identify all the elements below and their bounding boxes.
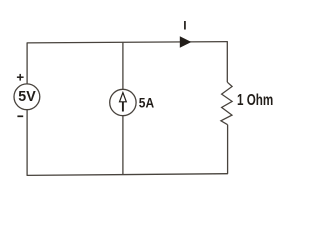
wire top: [27, 42, 228, 43]
resistor 1 Ohm: [221, 82, 232, 125]
value label 1 Ohm: [237, 92, 273, 109]
wire middle top: [122, 42, 124, 89]
value label 5V: [18, 88, 35, 105]
current direction arrow I: [180, 36, 192, 48]
svg-text:5V: 5V: [18, 88, 35, 105]
current source 5A: [110, 89, 136, 115]
svg-text:5A: 5A: [139, 95, 154, 111]
svg-text:1 Ohm: 1 Ohm: [237, 92, 273, 109]
wire middle bottom: [122, 116, 124, 175]
label I: [183, 18, 186, 32]
wire right top: [226, 42, 228, 83]
svg-text:I: I: [183, 18, 186, 32]
wire left bottom: [26, 110, 28, 176]
voltage source polarity −: [17, 115, 23, 117]
voltage source polarity +: [17, 74, 24, 81]
value label 5A: [139, 95, 154, 111]
voltage source 5V: [14, 84, 40, 110]
wire left top: [26, 43, 28, 84]
wire right bottom: [227, 125, 229, 174]
wire bottom: [27, 174, 228, 176]
